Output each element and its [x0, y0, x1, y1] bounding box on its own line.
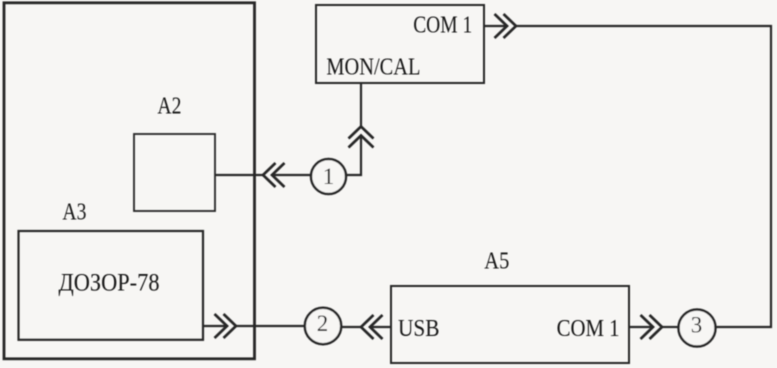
- enclosure box (outer unit): [4, 3, 255, 359]
- node 2 (circle): [305, 308, 341, 344]
- connector arrow (double chevron left) on A2 wire: [263, 163, 285, 187]
- wire COM 1 (top) to right edge and down to node 3: [484, 26, 771, 327]
- block A5: [391, 286, 629, 363]
- wire COM 1 (A5) to node 3: [629, 326, 678, 328]
- block A3 ДОЗОР-78: [19, 231, 204, 340]
- connector arrow (double chevron right) on A3 wire: [215, 314, 237, 338]
- connector arrow (double chevron left) on USB wire: [361, 315, 383, 339]
- svg-text:A2: A2: [157, 94, 181, 120]
- connector arrow (double chevron up) on MON/CAL wire: [349, 127, 374, 148]
- label A5: [484, 249, 509, 275]
- svg-text:COM 1: COM 1: [413, 13, 472, 39]
- svg-text:COM 1: COM 1: [557, 316, 620, 342]
- label A2: [157, 94, 181, 120]
- svg-text:3: 3: [691, 313, 703, 338]
- svg-text:ДОЗОР-78: ДОЗОР-78: [59, 270, 160, 297]
- node 1 (circle): [311, 159, 346, 194]
- value ДОЗОР-78: [59, 270, 160, 297]
- svg-text:A5: A5: [484, 249, 509, 275]
- label A3: [62, 200, 86, 226]
- pin label USB: [398, 316, 440, 342]
- svg-text:USB: USB: [398, 316, 440, 342]
- block A2: [134, 134, 215, 211]
- wire node 2 to USB: [341, 326, 391, 328]
- connector arrow (double chevron right) on COM 1 top wire: [495, 14, 517, 38]
- wire A3 to node 2: [203, 325, 306, 327]
- svg-text:2: 2: [317, 311, 329, 336]
- wire A2 to node 1: [215, 174, 311, 176]
- pin label COM 1 (top device): [413, 13, 472, 39]
- connector arrow (double chevron right) on A5 COM 1 wire: [641, 315, 663, 339]
- svg-text:MON/CAL: MON/CAL: [326, 55, 420, 81]
- block MON/CAL (top device): [316, 5, 484, 83]
- wire node 1 to MON/CAL: [346, 83, 362, 175]
- svg-text:A3: A3: [62, 200, 86, 226]
- pin label COM 1 (A5): [557, 316, 620, 342]
- node 3 (circle): [679, 310, 716, 347]
- svg-text:1: 1: [323, 164, 335, 189]
- pin label MON/CAL: [326, 55, 420, 81]
